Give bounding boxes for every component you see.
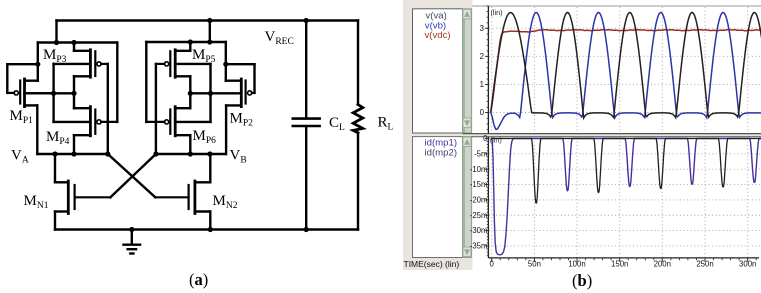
wire left rail drop: [55, 21, 57, 43]
transistor MP6: [174, 107, 177, 136]
svg-text:300n: 300n: [739, 260, 756, 269]
wire cross-couple diagonal VB to MN1 gate: [110, 154, 155, 197]
panel b background: [403, 0, 761, 290]
axis labels top plot: [480, 24, 485, 117]
curve id(mp2) dark: [492, 139, 761, 204]
wire bottom ground rail: [55, 228, 358, 230]
svg-text:(a): (a): [189, 270, 208, 289]
wire left bus ends down: [37, 43, 39, 81]
scrollbar top panel: [463, 9, 472, 133]
svg-text:-30m: -30m: [470, 226, 488, 235]
svg-text:50n: 50n: [528, 260, 541, 269]
transistor MP1: [23, 79, 26, 107]
svg-text:1: 1: [480, 80, 484, 89]
svg-text:-5m: -5m: [474, 149, 487, 158]
scrollbar bottom panel: [463, 137, 472, 258]
curve id(mp1) purple: [492, 139, 761, 255]
curve v(vb) blue: [491, 13, 761, 130]
wire right VREC bus y42: [146, 41, 226, 43]
axis labels bottom plot: [470, 134, 488, 250]
svg-text:250n: 250n: [696, 260, 713, 269]
node rail junction dots: [207, 18, 212, 23]
wire left VREC bus y42: [38, 41, 118, 43]
transistor MP5: [174, 50, 177, 77]
transistor MP4: [89, 107, 92, 136]
wire cross-couple diagonal VA to MN2 gate: [108, 154, 156, 197]
gridlines bottom plot: [489, 138, 761, 258]
ground symbol: [131, 230, 133, 245]
svg-text:0: 0: [480, 108, 485, 117]
transistor MN1: [67, 181, 70, 214]
svg-text:-25m: -25m: [470, 211, 488, 220]
resistor RL: [357, 21, 359, 105]
node VA line: [37, 153, 108, 155]
svg-text:0: 0: [490, 260, 495, 269]
node left y93 net: [25, 92, 75, 94]
svg-text:-20m: -20m: [470, 196, 488, 205]
svg-text:-15m: -15m: [470, 180, 488, 189]
svg-text:(lin): (lin): [491, 8, 503, 17]
plot frames: [487, 6, 489, 134]
svg-text:TIME(sec) (lin): TIME(sec) (lin): [404, 259, 460, 269]
svg-text:id(mp2): id(mp2): [425, 147, 458, 158]
wire right bus ends down: [145, 42, 147, 122]
svg-text:100n: 100n: [568, 260, 585, 269]
plot area top: [488, 6, 761, 134]
transistor MP2: [240, 79, 243, 107]
node right y93 net: [190, 92, 241, 94]
svg-text:0: 0: [483, 134, 488, 143]
wire top VREC rail: [57, 19, 359, 21]
legend box bottom: [413, 137, 463, 258]
node VB line: [156, 153, 226, 155]
svg-text:-35m: -35m: [470, 242, 488, 251]
transistor MN2: [193, 181, 196, 214]
transistor MP3: [89, 50, 92, 77]
svg-text:(b): (b): [572, 271, 592, 290]
svg-text:3: 3: [480, 24, 484, 33]
svg-text:150n: 150n: [611, 260, 628, 269]
svg-text:2: 2: [480, 52, 484, 61]
wire right block rail drop: [209, 21, 211, 43]
gridlines top plot: [489, 7, 761, 133]
svg-text:-10m: -10m: [470, 165, 488, 174]
curve v(vdc) red: [491, 30, 761, 113]
legend box top: [413, 9, 463, 133]
x axis labels: [490, 260, 757, 269]
curve v(va) black: [491, 13, 761, 119]
svg-text:200n: 200n: [654, 260, 671, 269]
svg-text:v(vdc): v(vdc): [425, 30, 451, 41]
capacitor CL: [305, 21, 307, 118]
